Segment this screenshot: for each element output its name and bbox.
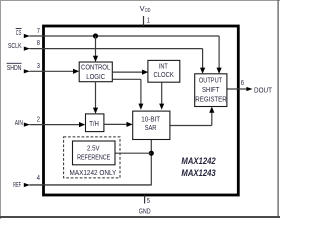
svg-text:8: 8 [37,38,40,47]
svg-text:MAX1242 ONLY: MAX1242 ONLY [70,168,117,177]
svg-text:SAR: SAR [145,123,157,132]
wire SHDN to control logic [30,70,74,72]
wire REF horizontal [30,184,152,186]
svg-text:REF: REF [13,180,21,189]
pin SHDN (3) input label [7,61,40,74]
svg-text:4: 4 [37,173,40,182]
wire control logic to int clock [112,71,142,73]
dashed box MAX1242 ONLY [64,137,120,178]
pin GND (5) [139,195,151,215]
block T/H [86,114,104,132]
svg-text:DD: DD [145,8,151,14]
wire reference box to junction [115,152,151,154]
pin DOUT (6) output [227,78,272,95]
wire SCLK vertical down to output shift register [202,49,204,68]
outer frame [0,0,280,219]
svg-text:CLOCK: CLOCK [154,70,174,79]
pin VDD (1) [140,4,151,26]
wire SCLK horizontal [30,48,203,50]
wire control logic to SAR horizontal [112,78,141,80]
wire int clock down to SAR [161,82,163,104]
block 2.5V REFERENCE [73,141,116,165]
pin CS (7) input label [16,26,40,38]
wire CS horizontal [30,35,220,37]
block 10-BIT SAR [133,111,170,139]
svg-text:GND: GND [139,206,151,215]
svg-text:2.5V: 2.5V [87,143,100,152]
svg-text:7: 7 [37,26,40,35]
svg-text:2: 2 [37,115,40,124]
svg-text:6: 6 [241,78,244,87]
block OUTPUT SHIFT REGISTER [195,74,227,107]
wire T/H to SAR [104,123,127,125]
svg-text:OUTPUT: OUTPUT [199,76,223,85]
svg-text:CONTROL: CONTROL [81,62,110,71]
node junction reference output [149,151,154,156]
wire SAR to output shift register vertical [211,112,213,126]
wire control logic to SAR vertical [140,79,142,104]
wire CS vertical down to output shift register [218,36,220,68]
pin REF (4) input label [13,173,40,189]
svg-text:SHIFT: SHIFT [202,85,220,94]
svg-text:SHDN: SHDN [7,63,22,72]
svg-text:3: 3 [37,61,40,70]
wire CS branch down to control logic [95,36,97,57]
svg-text:1: 1 [147,16,150,25]
svg-text:5: 5 [147,196,150,205]
IC boundary box MAX1242/MAX1243 [44,26,239,195]
svg-text:INT: INT [159,61,168,70]
node junction on CS line [93,33,98,38]
pin SCLK (8) input label [8,38,40,51]
block INT CLOCK [148,60,180,82]
pin AIN (2) input label [15,115,40,128]
svg-text:CS: CS [16,28,21,37]
svg-text:REFERENCE: REFERENCE [77,152,110,161]
wire control logic down to T/H [95,82,97,108]
svg-text:MAX1242: MAX1242 [181,156,215,166]
svg-text:REGISTER: REGISTER [195,95,226,104]
svg-text:V: V [140,4,145,13]
svg-text:MAX1243: MAX1243 [181,168,215,178]
svg-text:AIN: AIN [15,118,23,127]
wire SAR to output shift register horizontal [170,125,212,127]
block CONTROL LOGIC [79,62,112,82]
wire REF vertical up to SAR [150,140,152,186]
svg-text:DOUT: DOUT [254,86,272,95]
wire AIN to T/H [30,124,80,126]
svg-text:LOGIC: LOGIC [86,72,105,81]
svg-text:SCLK: SCLK [8,41,22,50]
svg-text:T/H: T/H [89,119,99,128]
